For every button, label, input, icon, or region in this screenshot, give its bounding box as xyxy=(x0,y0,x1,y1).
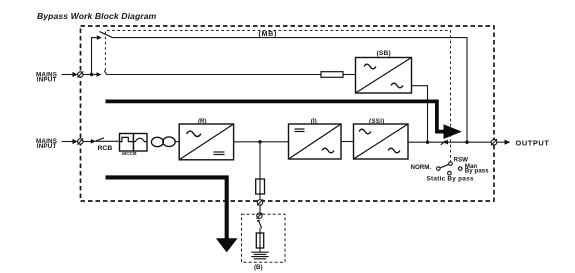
breaker MCCB xyxy=(120,134,148,152)
switch MB lower pole blade xyxy=(104,71,107,75)
switch MB lower pole contact xyxy=(97,72,102,77)
switch battery isolator blade xyxy=(257,219,262,228)
wire fuse to battery plates xyxy=(259,248,261,252)
svg-text:NORM.: NORM. xyxy=(411,164,432,171)
linkage dashed line MB switch poles xyxy=(105,31,450,162)
label MAINS INPUT (bypass feed) xyxy=(36,71,57,83)
svg-text:By pass: By pass xyxy=(465,168,489,175)
fuse F-SB xyxy=(321,72,343,78)
inductor/transformer choke xyxy=(151,137,175,147)
svg-text:RCB: RCB xyxy=(98,145,113,152)
wire fuse to terminal xyxy=(259,194,261,200)
wire SB output to output bus xyxy=(412,86,428,143)
svg-text:Static By pass: Static By pass xyxy=(427,175,474,182)
svg-text:OUTPUT: OUTPUT xyxy=(516,138,550,147)
wire MB bypass line xyxy=(113,38,468,143)
terminal circle mains1 xyxy=(77,71,83,77)
junction node DC bus / battery xyxy=(258,140,261,143)
UPS enclosure dashed box xyxy=(81,26,495,201)
arrowhead OUTPUT xyxy=(505,140,511,145)
wire R to I (DC bus) xyxy=(234,141,289,143)
wire fuse to SB block xyxy=(343,74,356,76)
svg-text:INPUT: INPUT xyxy=(37,77,57,84)
wire blade to battery fuse xyxy=(259,228,261,233)
arrowhead mains2 xyxy=(73,139,78,144)
battery cabinet dashed box xyxy=(242,214,286,262)
terminal circle battery (UPS side) xyxy=(257,199,263,205)
fuse battery lower xyxy=(256,233,263,248)
wire mains1 to SB fuse xyxy=(107,74,321,76)
arrowhead mains1 xyxy=(73,72,78,77)
wire OUTPUT lead xyxy=(497,141,505,143)
terminal circle mains2 xyxy=(77,138,83,144)
wire mains1 lead-in xyxy=(62,74,73,76)
wire mains1 to junction xyxy=(83,74,97,76)
thick bypass flow path (top) xyxy=(106,101,445,131)
switch RSW contact on output bus xyxy=(441,140,448,145)
junction node MB/output xyxy=(465,141,468,144)
switch MB upper pole blade xyxy=(100,32,113,38)
static bypass block SB xyxy=(356,58,412,94)
junction node mains1/MB branch xyxy=(90,73,93,76)
junction node SB/output xyxy=(426,141,429,144)
wire MB branch riser xyxy=(92,38,97,75)
switch RSW rotary selector xyxy=(437,162,463,175)
svg-text:(R): (R) xyxy=(198,118,207,125)
wire choke to R xyxy=(175,141,179,143)
wire battery branch xyxy=(259,142,261,179)
svg-text:(I): (I) xyxy=(311,118,317,125)
label Man By pass xyxy=(465,163,489,175)
static switch block SSI xyxy=(354,124,409,159)
wire mains2 lead-in xyxy=(62,141,73,143)
svg-text:INPUT: INPUT xyxy=(37,143,57,150)
thick bypass flow arrowhead (right) xyxy=(444,124,462,139)
wire RCB to MCCB xyxy=(96,140,120,142)
svg-text:(SB): (SB) xyxy=(377,50,391,57)
svg-text:MCCB: MCCB xyxy=(122,151,137,157)
wire mains2 to RCB xyxy=(83,141,91,143)
fuse battery upper xyxy=(256,179,265,194)
svg-text:(B): (B) xyxy=(254,264,263,271)
breaker RCB contact xyxy=(91,138,104,144)
thick battery flow path (lower) xyxy=(106,177,227,238)
svg-text:(SSI): (SSI) xyxy=(369,118,385,125)
terminal circle battery (cabinet side) xyxy=(257,213,263,219)
wire I to SSI xyxy=(341,141,354,143)
switch MB upper pole contact xyxy=(97,35,102,40)
terminal circle OUTPUT xyxy=(491,139,497,145)
svg-text:(MB): (MB) xyxy=(259,30,278,38)
wire terminal to battery box xyxy=(259,205,261,213)
svg-text:Bypass Work Block Diagram: Bypass Work Block Diagram xyxy=(37,11,157,21)
battery B plates xyxy=(251,252,268,259)
label MAINS INPUT (rectifier feed) xyxy=(36,138,57,150)
wire SSI output to OUTPUT terminal xyxy=(408,141,491,143)
inverter block I xyxy=(289,124,342,159)
thick battery flow arrowhead (down) xyxy=(216,238,238,252)
rectifier block R xyxy=(179,124,233,160)
